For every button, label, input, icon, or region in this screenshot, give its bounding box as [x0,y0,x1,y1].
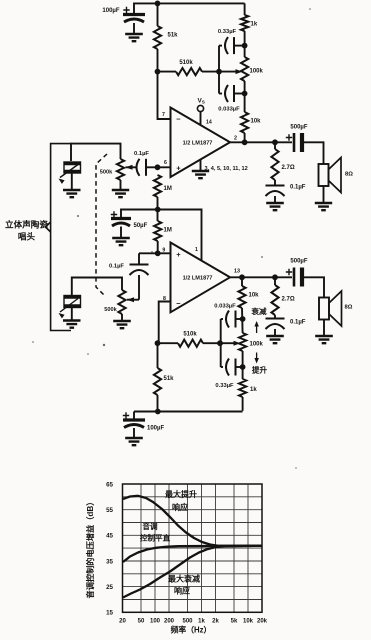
svg-text:15: 15 [106,610,113,617]
svg-text:65: 65 [106,481,113,488]
svg-text:提升: 提升 [252,365,268,375]
svg-text:音调控制的电压增益（dB）: 音调控制的电压增益（dB） [85,498,95,599]
svg-text:−: − [176,299,181,308]
svg-text:6: 6 [164,160,167,166]
svg-text:20: 20 [119,619,126,625]
svg-text:14: 14 [206,120,212,126]
svg-text:100µF: 100µF [147,426,164,432]
svg-text:唱头: 唱头 [18,231,36,242]
svg-text:0.1µF: 0.1µF [109,264,124,270]
svg-text:响应: 响应 [174,586,190,596]
svg-text:20k: 20k [257,619,268,625]
svg-text:1M: 1M [164,228,172,234]
svg-text:100k: 100k [250,69,264,75]
svg-text:51k: 51k [168,33,179,39]
svg-text:1k: 1k [250,387,257,393]
svg-text:35: 35 [106,558,113,565]
svg-text:1/2 LM1877: 1/2 LM1877 [183,276,213,282]
svg-text:音调: 音调 [142,521,158,531]
svg-text:VS: VS [198,98,205,105]
svg-text:0.1µF: 0.1µF [290,320,306,326]
svg-text:最大衰减: 最大衰减 [168,574,200,584]
svg-text:500k: 500k [104,307,117,313]
svg-text:频率（Hz）: 频率（Hz） [171,625,212,635]
svg-text:3, 4, 5, 10, 11, 12: 3, 4, 5, 10, 11, 12 [205,166,248,172]
svg-text:500µF: 500µF [290,259,307,265]
svg-text:衰减: 衰减 [250,306,267,316]
svg-text:5k: 5k [231,619,238,625]
svg-text:10k: 10k [243,619,254,625]
svg-text:10k: 10k [249,293,260,299]
svg-text:10k: 10k [251,119,262,125]
svg-text:50: 50 [138,619,145,625]
svg-text:55: 55 [106,507,113,514]
svg-text:500k: 500k [100,170,113,176]
svg-text:51k: 51k [164,376,175,382]
svg-text:2: 2 [234,136,237,142]
svg-text:−: − [176,115,181,124]
svg-text:最大提升: 最大提升 [165,489,197,499]
svg-text:7: 7 [162,112,165,118]
svg-text:1k: 1k [251,22,258,28]
svg-text:控制平直: 控制平直 [140,533,171,543]
svg-text:立体声陶瓷: 立体声陶瓷 [5,219,48,230]
svg-text:2k: 2k [212,619,219,625]
svg-text:25: 25 [106,584,113,591]
svg-text:0.33µF: 0.33µF [218,29,237,35]
svg-text:510k: 510k [179,60,193,66]
svg-text:0.033µF: 0.033µF [218,107,240,113]
svg-text:100: 100 [150,619,161,625]
svg-text:响应: 响应 [172,502,188,512]
svg-text:500: 500 [182,619,193,625]
svg-text:8Ω: 8Ω [345,172,353,178]
svg-text:+: + [176,164,181,173]
svg-text:2.7Ω: 2.7Ω [282,297,295,303]
svg-text:+: + [176,250,181,259]
svg-text:13: 13 [234,269,240,275]
svg-text:0.1µF: 0.1µF [290,185,306,191]
svg-text:510k: 510k [183,332,197,338]
svg-text:100µF: 100µF [102,8,119,14]
svg-text:100k: 100k [250,342,264,348]
svg-text:1k: 1k [198,619,205,625]
svg-text:1: 1 [195,247,198,253]
svg-text:0.1µF: 0.1µF [134,151,149,157]
svg-text:0.033µF: 0.033µF [214,304,236,310]
svg-text:1/2 LM1877: 1/2 LM1877 [183,141,213,147]
svg-text:2.7Ω: 2.7Ω [282,165,295,171]
svg-text:500µF: 500µF [290,125,307,131]
svg-text:1M: 1M [164,186,172,192]
svg-text:45: 45 [106,533,113,540]
svg-text:200: 200 [164,619,175,625]
svg-text:8Ω: 8Ω [345,305,353,311]
svg-text:50µF: 50µF [134,223,148,229]
svg-text:0.33µF: 0.33µF [215,383,234,389]
